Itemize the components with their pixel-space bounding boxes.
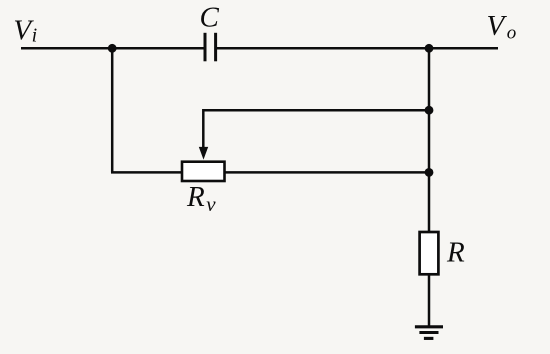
svg-text:C: C [200,1,220,33]
node junction top-right [425,44,434,53]
label C [200,1,220,33]
wire lower horizontal (through Rv) [111,171,429,174]
wire wiper stem [202,109,205,148]
wiper arrowhead [199,147,208,160]
ground [415,327,443,339]
wire top-right (capacitor to Vo) [217,47,498,50]
node junction top-left [108,44,117,53]
wire vertical right rail [428,48,431,233]
capacitor C plates [205,33,216,62]
label Rv [186,181,216,216]
wire left rail vertical [111,48,114,172]
wire wiper feedback horizontal [203,109,429,112]
resistor R body [420,232,439,274]
label Vi (input) [13,14,37,46]
wire resistor to ground [428,274,431,327]
potentiometer Rv body [182,162,225,181]
node junction wiper rail [425,106,434,115]
node junction lower rail [425,168,434,177]
wire top-left (Vi to capacitor) [21,47,205,50]
label Vo (output) [487,10,517,43]
svg-text:R: R [446,237,465,269]
label R [446,237,465,269]
